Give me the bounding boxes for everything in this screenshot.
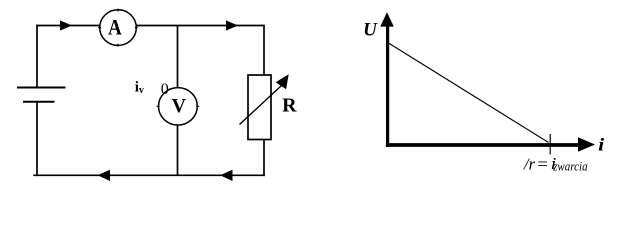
svg-text:U: U [363,20,378,41]
graph U axis arrowhead [380,12,394,26]
wire voltmeter branch upper [177,26,179,88]
svg-text:R: R [282,95,297,117]
arrow current top-left [60,20,72,30]
graph load line [388,42,549,142]
ammeter tick right [135,27,138,29]
wire right vertical lower [263,140,265,177]
arrow current bottom-right [220,170,233,181]
svg-text:=: = [536,154,549,173]
svg-text:A: A [108,16,122,39]
ammeter tick bottom [117,44,119,47]
ammeter U1 circle [100,10,137,46]
wire left vertical upper [36,25,38,88]
voltmeter tick left [157,105,160,107]
wire right vertical upper [263,25,265,75]
svg-text:i: i [598,136,605,155]
voltmeter tick right [196,105,199,107]
svg-text:/r: /r [523,154,536,173]
wire top-middle segment [136,25,264,27]
svg-text:V: V [172,95,187,117]
wire top-left segment [36,25,100,27]
arrow current top-right [226,20,238,30]
resistor adjustment arrow shaft [240,86,282,125]
wire bottom segment [33,174,265,176]
ammeter tick left [98,27,101,29]
battery B1 long plate [17,87,66,89]
svg-text:zwarcia: zwarcia [552,159,587,174]
graph U axis [386,24,389,147]
resistor R body [248,75,271,140]
resistor adjustment arrowhead [276,74,289,89]
graph tick izwarcia [549,134,551,155]
svg-text:0: 0 [161,81,169,98]
voltmeter U2 circle [159,88,198,125]
wire left vertical lower [36,102,38,176]
arrow current bottom-left [98,170,111,181]
graph i axis [386,143,580,147]
wire voltmeter branch lower [177,125,179,175]
graph i axis arrowhead [578,137,595,151]
battery B1 short plate [23,101,55,103]
ammeter tick top [117,9,119,12]
